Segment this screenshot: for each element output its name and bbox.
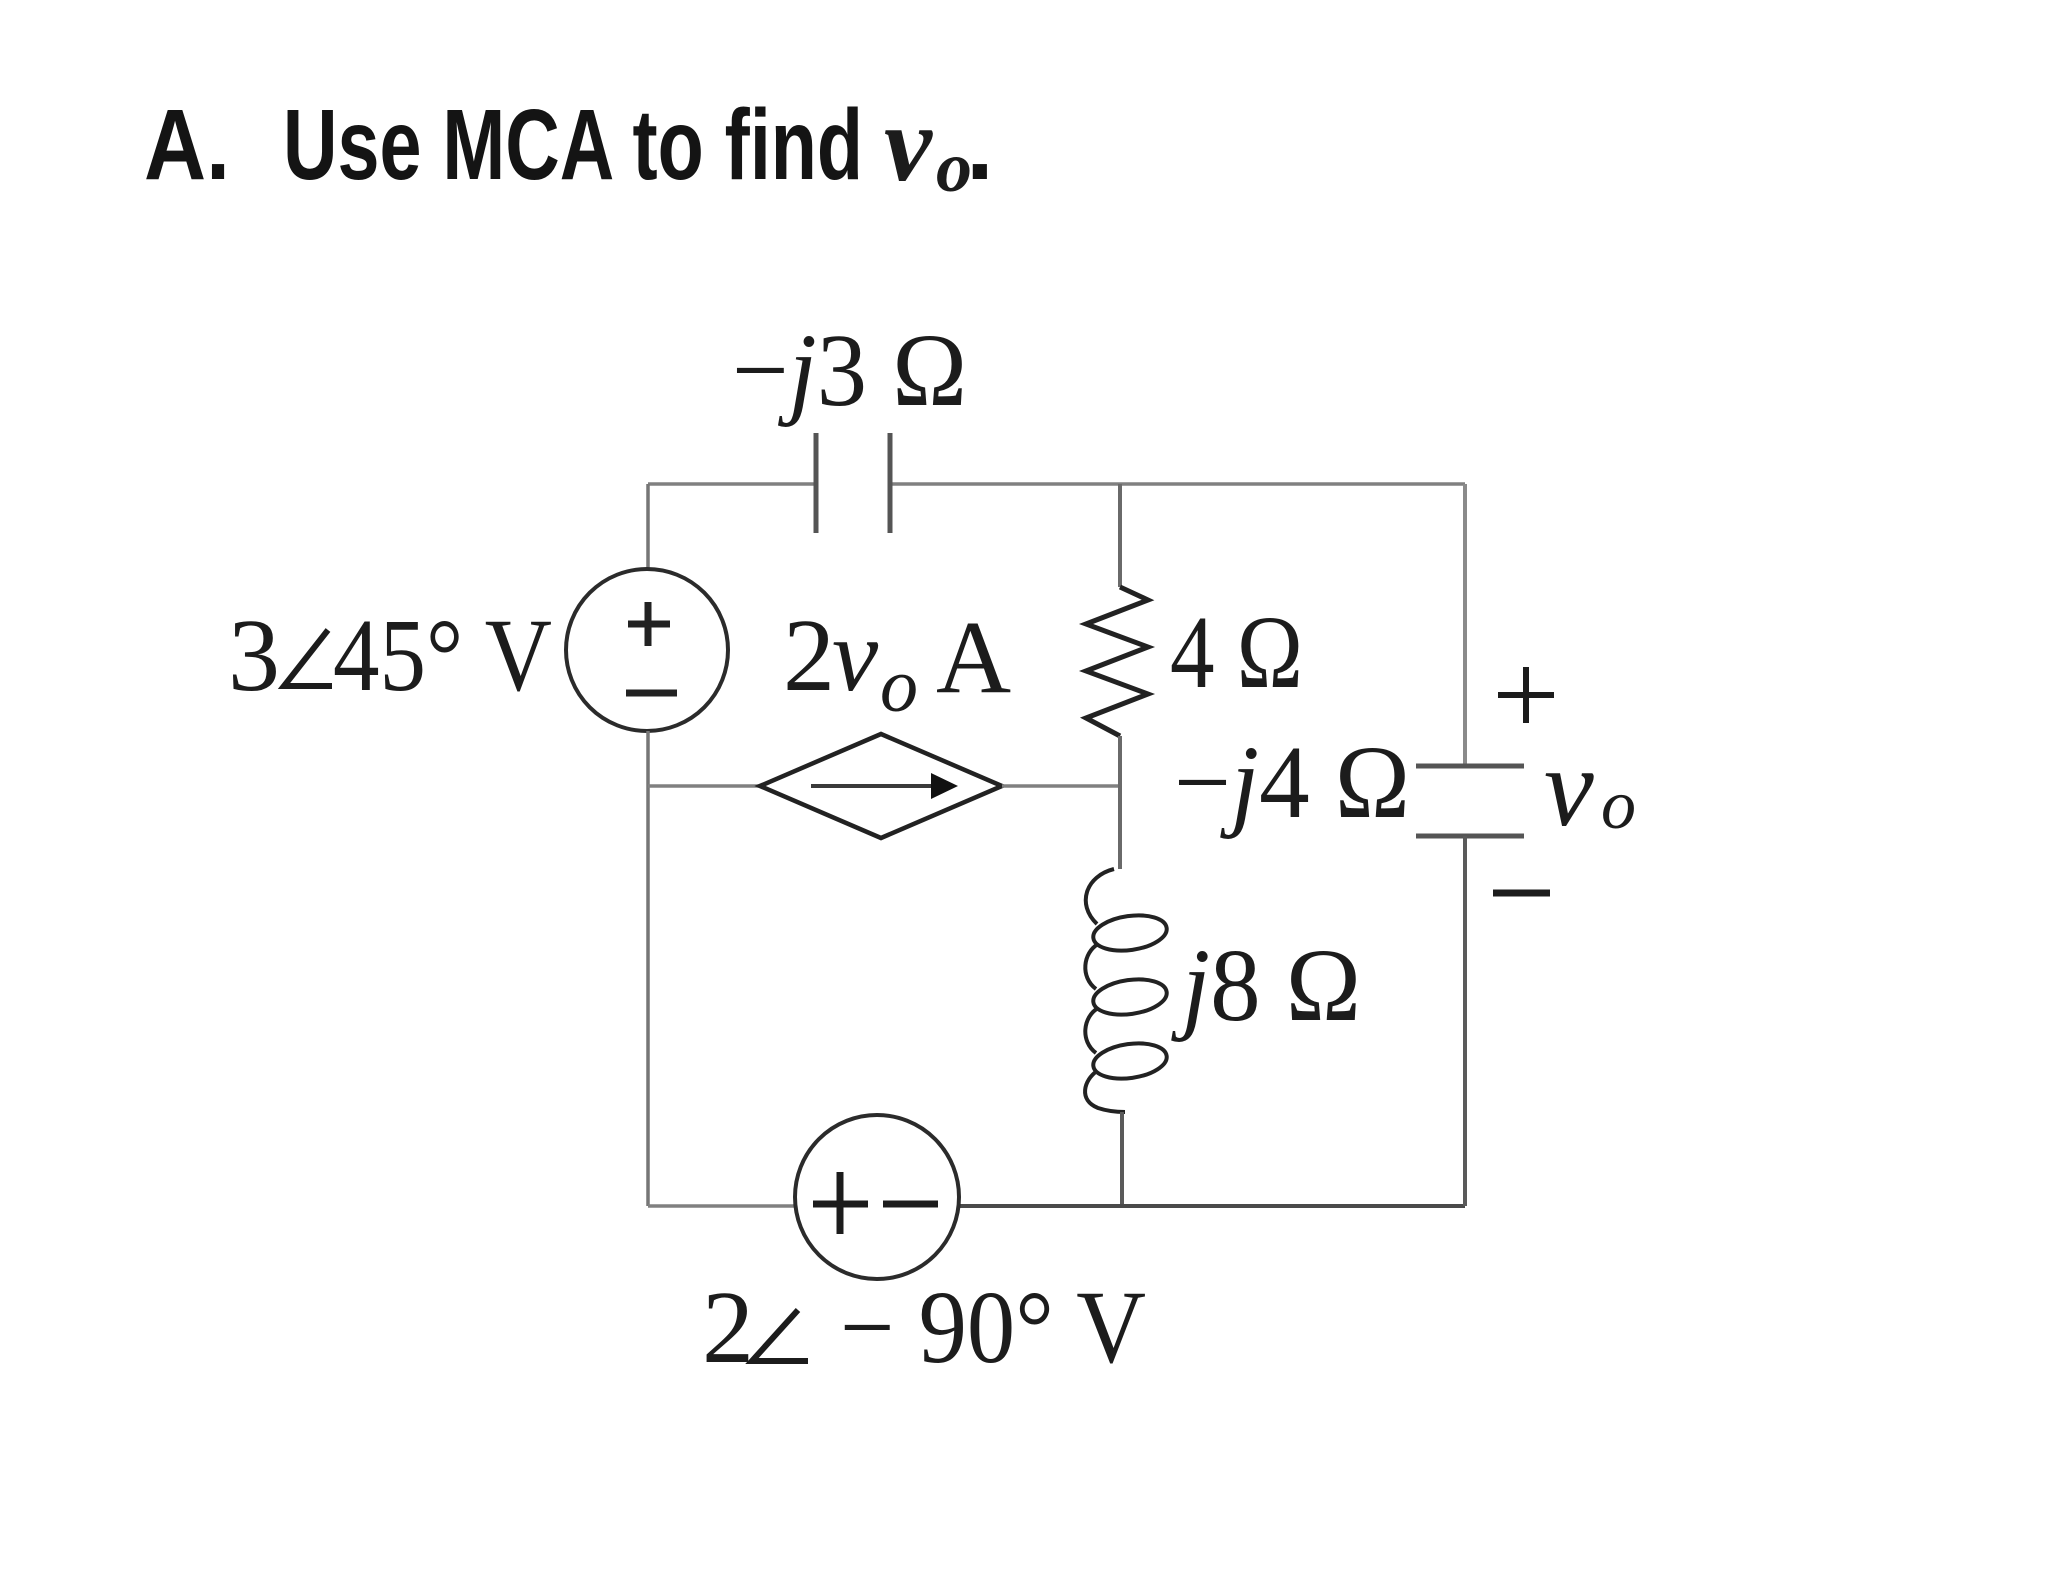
wire bottom-right horizontal bbox=[958, 1204, 1465, 1208]
svg-text:− 90° V: − 90° V bbox=[840, 1270, 1146, 1385]
wire top-left horizontal bbox=[648, 482, 816, 486]
wire top-right horizontal bbox=[890, 482, 1465, 486]
svg-text:−j3 Ω: −j3 Ω bbox=[732, 313, 967, 428]
label 2vo A bbox=[783, 598, 1011, 728]
svg-text:v: v bbox=[884, 85, 933, 204]
plus mark vo bbox=[1498, 667, 1554, 723]
minus mark vo bbox=[1493, 890, 1550, 897]
label 3∠45° V bbox=[228, 598, 552, 713]
label 2∠-90° V bbox=[702, 1270, 1146, 1385]
svg-text:A: A bbox=[936, 600, 1011, 715]
voltage source 3∠45°V bbox=[566, 569, 728, 731]
svg-text:45° V: 45° V bbox=[333, 598, 552, 713]
dependent current source 2vo A (diamond with arrow) bbox=[760, 734, 1002, 838]
svg-text:Use MCA to find: Use MCA to find bbox=[283, 89, 863, 201]
wire right top vertical bbox=[1463, 484, 1467, 766]
wire right bottom vertical bbox=[1463, 836, 1467, 1206]
svg-text:2: 2 bbox=[702, 1270, 754, 1385]
wire left top vertical bbox=[646, 484, 650, 570]
capacitor -j3 ohm (top) bbox=[816, 433, 890, 533]
svg-text:v: v bbox=[1544, 726, 1594, 850]
wire resistor to node bbox=[1118, 736, 1122, 869]
wire bottom-left horizontal bbox=[648, 1204, 796, 1208]
svg-text:3: 3 bbox=[228, 598, 280, 713]
voltage source 2∠-90°V (bottom) bbox=[795, 1115, 959, 1279]
wire dep source to middle branch bbox=[1002, 784, 1120, 788]
svg-text:4 Ω: 4 Ω bbox=[1170, 595, 1303, 710]
svg-text:.: . bbox=[966, 89, 994, 201]
svg-text:j8 Ω: j8 Ω bbox=[1170, 928, 1361, 1043]
resistor 4 ohm bbox=[1086, 587, 1148, 736]
svg-text:v: v bbox=[832, 598, 879, 713]
wire left bottom vertical bbox=[646, 731, 650, 1206]
label vo bbox=[1544, 726, 1636, 850]
inductor j8 ohm (coil) bbox=[1085, 869, 1169, 1112]
svg-text:2: 2 bbox=[783, 598, 835, 713]
svg-text:−j4 Ω: −j4 Ω bbox=[1174, 725, 1410, 840]
wire inductor to bottom bbox=[1120, 1112, 1124, 1206]
wire junction to dependent source bbox=[648, 784, 760, 788]
svg-text:A.: A. bbox=[144, 89, 230, 201]
title: A. Use MCA to find vo. bbox=[144, 85, 994, 207]
capacitor -j4 ohm (right) bbox=[1416, 766, 1524, 836]
wire middle top vertical bbox=[1118, 484, 1122, 587]
svg-text:o: o bbox=[880, 644, 918, 728]
svg-text:o: o bbox=[1601, 767, 1636, 844]
